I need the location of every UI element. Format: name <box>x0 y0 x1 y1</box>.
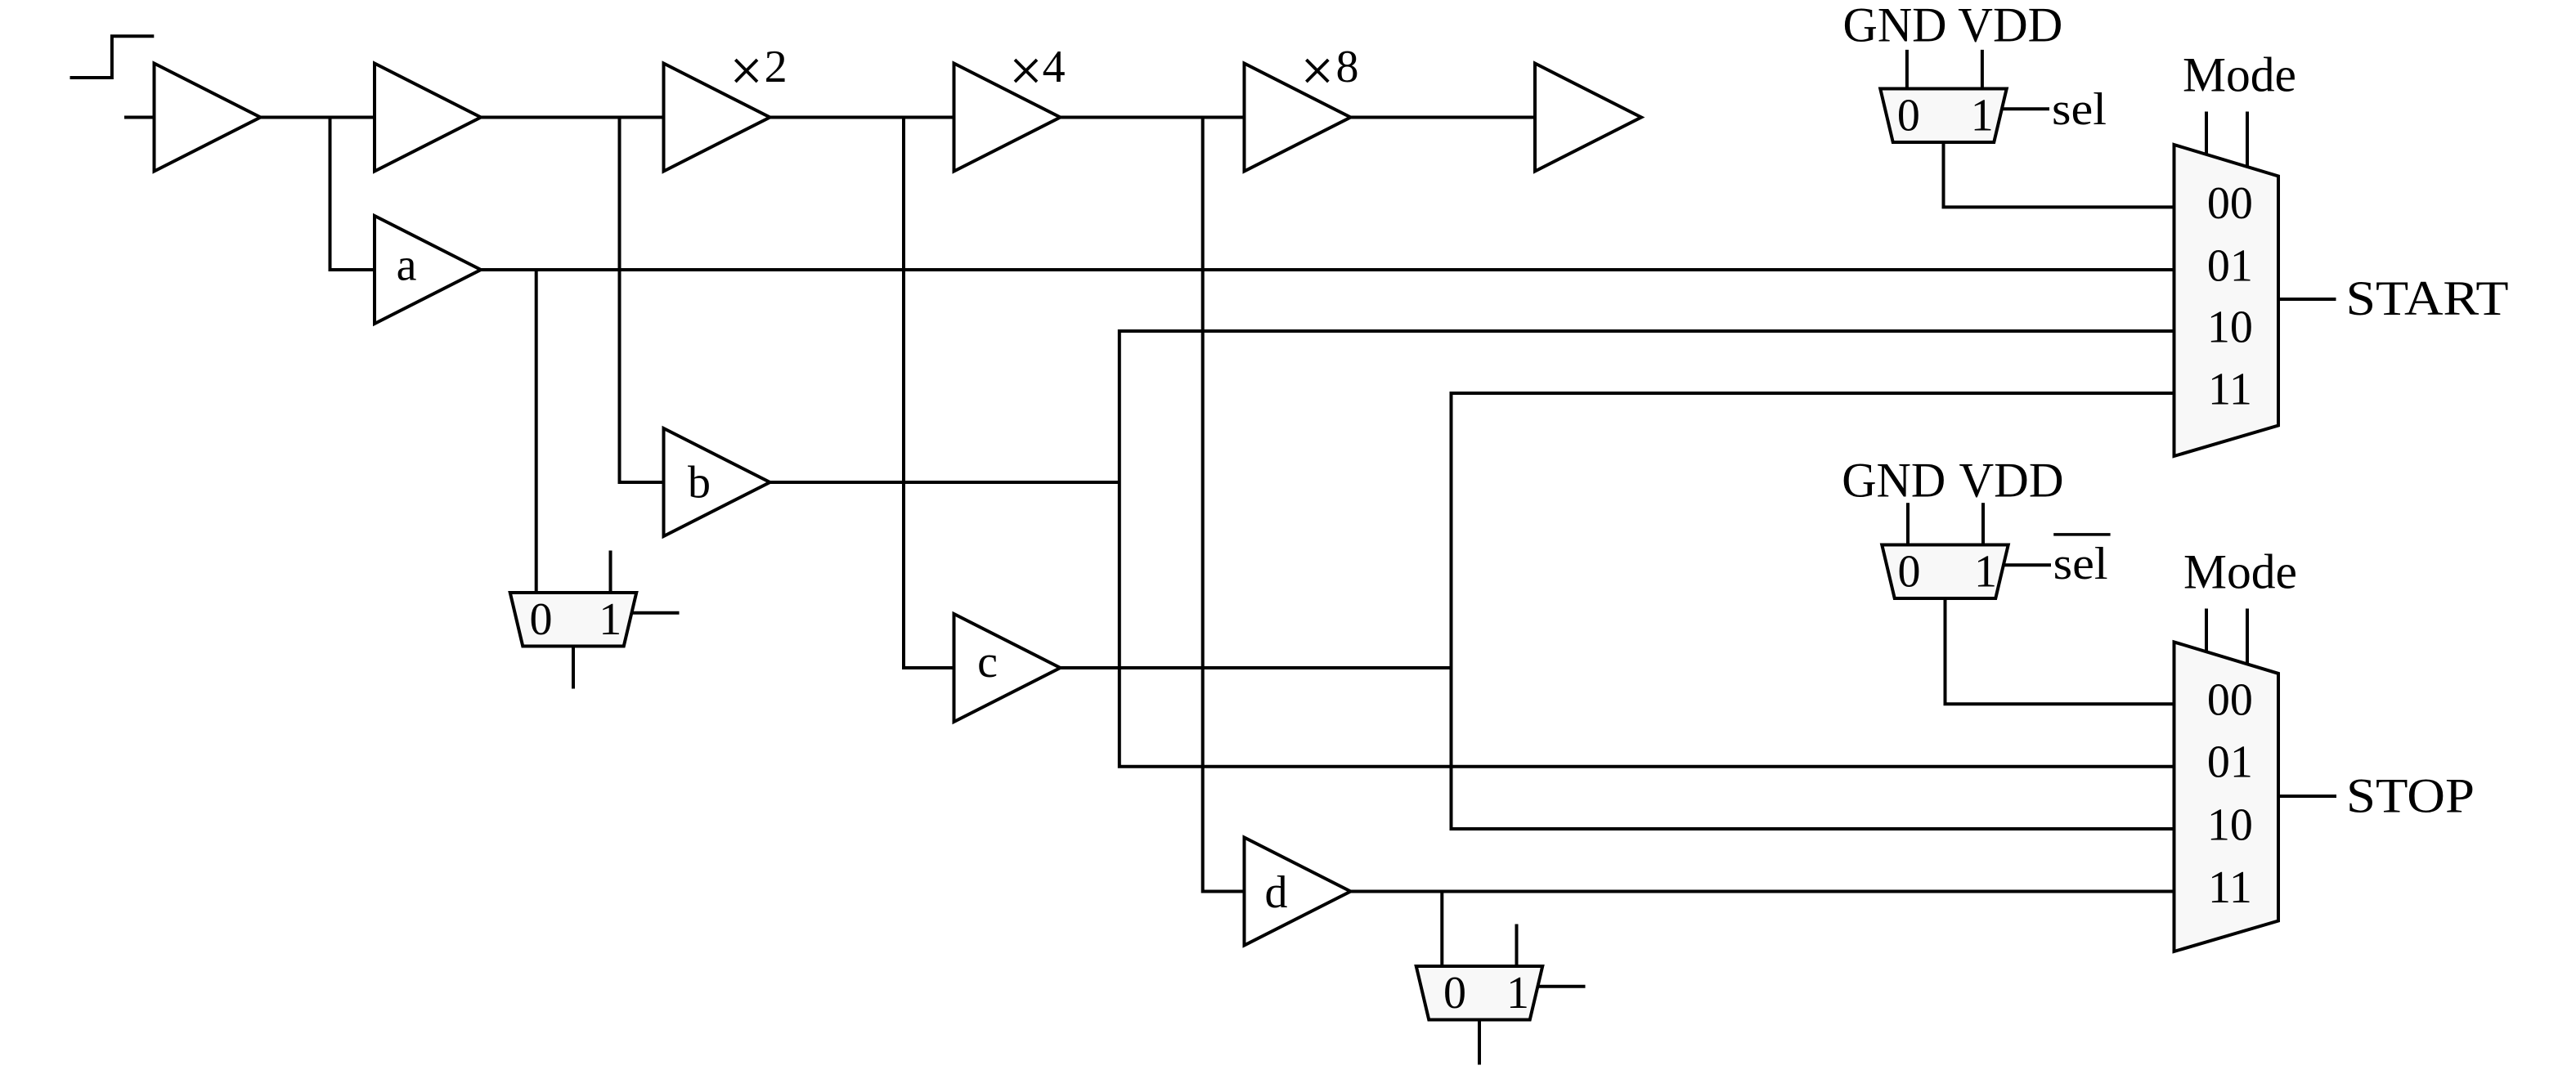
svg-text:sel: sel <box>2053 539 2108 589</box>
svg-text:0: 0 <box>530 594 553 645</box>
wire node J6 down to mux M2 input 0 <box>1440 892 1443 967</box>
svg-text:d: d <box>1265 867 1288 918</box>
mux M4 VDD input stub <box>1981 503 1985 544</box>
wire START output stub <box>2278 298 2336 301</box>
mux M3 select stub <box>2001 107 2050 110</box>
clock edge symbol <box>70 36 155 78</box>
svg-text:1: 1 <box>599 594 622 645</box>
wire node J4 down to buffer c input <box>904 118 954 669</box>
wire node J1 down to buffer a input <box>330 118 375 271</box>
svg-text:01: 01 <box>2207 241 2253 292</box>
wire node J2 down to mux M1 input 0 <box>535 270 538 593</box>
svg-text:GND: GND <box>1843 0 1947 52</box>
svg-text:b: b <box>688 458 711 508</box>
buffer U4 x4 <box>954 64 1061 172</box>
STOP mux mode stub 2 <box>2246 609 2249 665</box>
wire b output to node B <box>770 481 1120 484</box>
svg-text:Mode: Mode <box>2183 545 2297 599</box>
mux M6 STOP body <box>2174 642 2279 951</box>
mux M2 input 1 stub <box>1515 924 1519 967</box>
svg-text:10: 10 <box>2207 799 2253 850</box>
wire M3 output to START mux input 00 <box>1944 142 2174 207</box>
svg-text:VDD: VDD <box>1959 454 2064 508</box>
svg-text:1: 1 <box>1506 968 1529 1019</box>
svg-text:VDD: VDD <box>1958 0 2062 52</box>
mux M5 START body <box>2174 145 2279 456</box>
svg-text:11: 11 <box>2208 862 2252 913</box>
buffer b <box>664 428 770 536</box>
mux M3 body <box>1880 89 2007 143</box>
wire node B down to STOP mux input 01 <box>1120 482 2174 767</box>
buffer U1 <box>155 64 261 172</box>
wire U3 out to U4 <box>770 116 954 119</box>
mux M2 select stub <box>1537 985 1586 988</box>
svg-text:00: 00 <box>2207 178 2253 229</box>
wire a output to START mux input 01 <box>481 268 2174 271</box>
svg-text:a: a <box>397 240 417 291</box>
svg-text:8: 8 <box>1336 42 1359 92</box>
svg-text:0: 0 <box>1443 968 1466 1019</box>
svg-text:4: 4 <box>1043 42 1066 92</box>
STOP mux mode stub 1 <box>2205 609 2208 653</box>
mux M1 select stub <box>631 611 680 615</box>
mux M1 input 1 stub <box>609 551 613 593</box>
buffer U2 <box>375 64 481 172</box>
wire clk input stub <box>124 116 155 119</box>
sel overline <box>2053 533 2110 536</box>
label x8 <box>1306 60 1328 82</box>
wire U4 out to U5 <box>1061 116 1245 119</box>
svg-text:0: 0 <box>1897 91 1920 141</box>
svg-text:2: 2 <box>765 42 788 92</box>
mux M4 GND input stub <box>1906 503 1910 544</box>
buffer c <box>954 614 1061 722</box>
wire d output to STOP mux input 11 <box>1351 890 2174 893</box>
wire node J3 down to buffer b input <box>620 118 664 483</box>
svg-text:c: c <box>977 637 998 687</box>
svg-text:1: 1 <box>1974 547 1997 598</box>
START mux mode stub 1 <box>2205 112 2208 156</box>
wire node J5 down to buffer d input <box>1203 118 1245 892</box>
wire U5 out to U6 <box>1351 116 1536 119</box>
mux M2 output stub <box>1478 1020 1481 1065</box>
svg-text:00: 00 <box>2207 675 2253 726</box>
svg-text:1: 1 <box>1971 91 1994 141</box>
svg-text:01: 01 <box>2207 736 2253 787</box>
svg-text:sel: sel <box>2052 84 2107 135</box>
wire node B up to START mux input 10 <box>1120 331 2174 482</box>
label x4 <box>1015 60 1037 82</box>
buffer U5 x8 <box>1245 64 1351 172</box>
mux M3 VDD input stub <box>1981 50 1984 89</box>
buffer a <box>375 216 481 324</box>
svg-text:0: 0 <box>1898 547 1921 598</box>
svg-text:10: 10 <box>2207 302 2253 353</box>
svg-text:GND: GND <box>1842 454 1945 508</box>
wire M4 output to STOP mux input 00 <box>1945 598 2174 704</box>
svg-text:START: START <box>2346 271 2509 325</box>
mux M3 GND input stub <box>1905 50 1909 89</box>
buffer U6 <box>1535 64 1641 172</box>
buffer U3 x2 <box>664 64 770 172</box>
label x2 <box>735 60 757 82</box>
wire U1 out to U2 <box>261 116 375 119</box>
svg-text:11: 11 <box>2208 365 2252 415</box>
mux M4 select stub <box>2003 563 2052 566</box>
wire STOP output stub <box>2278 795 2336 798</box>
START mux mode stub 2 <box>2246 112 2249 168</box>
mux M2 body <box>1416 966 1543 1020</box>
wire node C down to STOP mux input 10 <box>1452 668 2174 829</box>
buffer d <box>1245 838 1351 946</box>
svg-text:STOP: STOP <box>2346 769 2475 823</box>
svg-text:Mode: Mode <box>2183 48 2296 102</box>
wire c output to node C <box>1061 666 1452 669</box>
wire U2 out to U3 <box>481 116 664 119</box>
mux M1 body <box>510 593 637 647</box>
mux M1 output stub <box>572 647 575 689</box>
mux M4 body <box>1882 545 2008 599</box>
wire node C up to START mux input 11 <box>1452 393 2174 668</box>
